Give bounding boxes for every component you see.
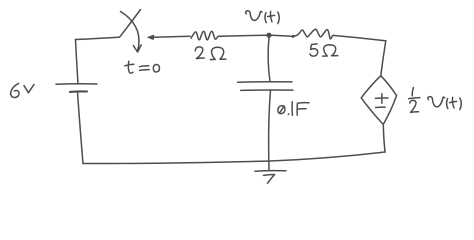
ground <box>255 171 286 184</box>
label 2 ohm <box>195 47 226 60</box>
label 5 ohm <box>310 44 338 56</box>
wire switch to R1 with left arrowhead <box>148 35 190 39</box>
dependent source U1 (diamond) <box>361 76 396 125</box>
label t=0 <box>125 61 160 73</box>
wire R1 to node <box>221 35 267 36</box>
wire R2 to top-right corner <box>333 35 386 40</box>
wire capacitor to ground through bottom wire <box>269 91 271 171</box>
wire left vertical lower <box>78 92 84 163</box>
wire node to R2 <box>272 35 292 36</box>
switch S1 (opens at t=0) <box>120 10 142 53</box>
label 1/2 v(t) <box>409 87 462 112</box>
label 6V <box>11 83 34 97</box>
wire right vertical <box>381 41 386 76</box>
label 0.1F <box>278 102 309 115</box>
battery V1 <box>56 84 97 92</box>
wire left vertical upper <box>76 40 79 84</box>
wire dependent source to bottom-right corner <box>383 124 385 152</box>
wire node to capacitor <box>268 38 270 82</box>
capacitor C1 <box>238 82 293 91</box>
resistor R2 <box>294 29 334 39</box>
wire top-left horizontal (battery + to switch) <box>76 37 120 39</box>
wire bottom <box>83 152 385 164</box>
node v(t) junction dot <box>266 33 271 38</box>
label v(t) <box>246 11 280 24</box>
resistor R1 <box>191 31 221 40</box>
